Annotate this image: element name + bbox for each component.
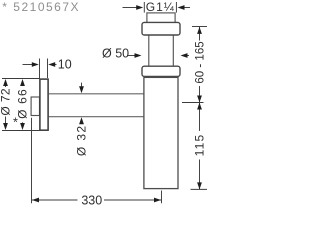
svg-text:Ø 50: Ø 50 <box>102 47 129 61</box>
svg-text:Ø 32: Ø 32 <box>75 124 89 156</box>
svg-text:*: * <box>13 115 18 129</box>
svg-text:* 5210567X: * 5210567X <box>2 0 80 14</box>
svg-text:Ø 72: Ø 72 <box>0 88 13 116</box>
svg-text:115: 115 <box>193 134 207 157</box>
svg-text:60 - 165: 60 - 165 <box>195 41 207 83</box>
svg-text:G1¼: G1¼ <box>146 0 175 14</box>
svg-text:10: 10 <box>58 57 72 71</box>
svg-text:330: 330 <box>81 193 102 207</box>
svg-text:Ø 66: Ø 66 <box>16 88 30 119</box>
